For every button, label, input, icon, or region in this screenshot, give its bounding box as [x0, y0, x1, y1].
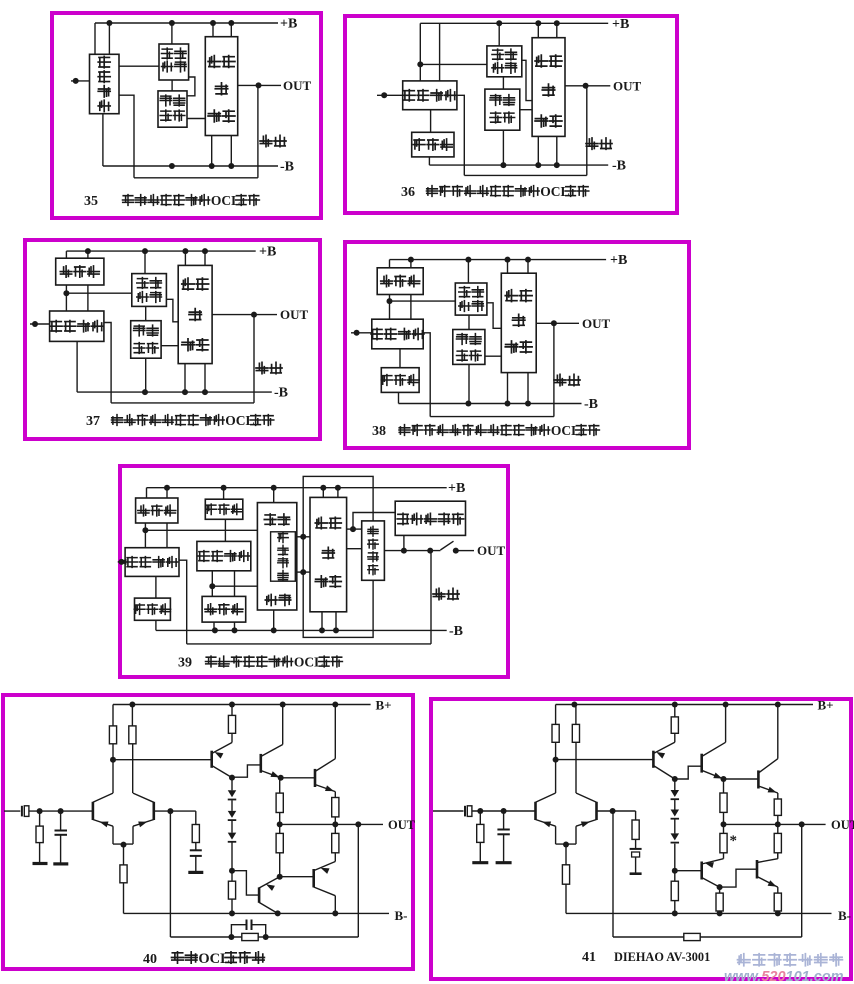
resistor R6 Q3 emitter — [674, 705, 676, 717]
emitter common wire — [556, 843, 576, 845]
block voltage-amp 电压恒压偏置放大 — [257, 503, 296, 610]
node on B+ rail — [332, 702, 338, 708]
wire driver to -B — [537, 136, 539, 165]
node on +B rail — [228, 20, 234, 26]
diode D2 — [674, 800, 676, 810]
block voltage-amp 电压放大 — [487, 46, 522, 77]
svg-text:+B: +B — [448, 481, 465, 496]
svg-text:41: 41 — [582, 950, 596, 965]
resistor R8 — [279, 778, 281, 793]
wire driver to protect lower — [347, 548, 362, 550]
resistor R1 left load — [112, 705, 114, 726]
node — [427, 548, 433, 554]
diode D1 — [231, 778, 233, 791]
feedback tap from diff-input — [457, 95, 464, 175]
wire rail to voltage-amp — [171, 23, 173, 44]
block mirror-source 镜流源 — [389, 260, 391, 268]
svg-text:OUT: OUT — [477, 543, 506, 558]
svg-text:+B: +B — [280, 17, 297, 32]
svg-text:+B: +B — [259, 245, 276, 260]
wire tap to voltage-amp — [420, 63, 487, 65]
input wire — [4, 810, 20, 812]
panel 39 frame — [120, 466, 508, 677]
node tap to voltage-amp — [63, 290, 69, 296]
node — [263, 934, 269, 940]
wire rail to driver — [212, 23, 214, 37]
input wire — [433, 810, 464, 812]
feedback bottom wire — [111, 402, 254, 404]
svg-text:+B: +B — [612, 17, 629, 32]
transistor Q5 output top npn — [314, 769, 317, 787]
label feedback 反馈 — [256, 362, 268, 373]
node feedback tap — [799, 821, 805, 827]
node on +B rail — [554, 20, 560, 26]
ground — [496, 861, 512, 864]
wire mirror2 to -B — [213, 622, 215, 630]
emitter common node — [563, 842, 569, 848]
node on +B rail — [535, 20, 541, 26]
wire driver to -B — [507, 373, 509, 404]
node diff left collector tap — [553, 757, 559, 763]
node on B+ rail — [723, 702, 729, 708]
wire voltage-amp to -B — [273, 610, 275, 630]
feedback tap from diff1 — [179, 560, 187, 644]
feedback vertical from base2 — [612, 811, 614, 937]
wire speaker-protect to OUT — [403, 535, 405, 550]
feedback wire to OUT — [253, 315, 255, 403]
block diff-input 差动输入 — [372, 319, 423, 349]
outer loop box — [303, 476, 373, 637]
svg-text:OUT: OUT — [831, 818, 854, 832]
node on +B rail — [320, 485, 326, 491]
feedback wire to OUT — [257, 85, 259, 177]
svg-text:B-: B- — [838, 908, 851, 923]
wire tap to voltage-amp — [390, 300, 456, 302]
+B rail — [66, 250, 255, 252]
svg-text:38: 38 — [372, 424, 386, 439]
resistor R9 — [279, 824, 281, 833]
svg-text:39: 39 — [178, 656, 192, 671]
input wire — [71, 80, 90, 82]
wire rail to voltage-amp — [498, 23, 500, 46]
wire bias to -B — [468, 364, 470, 403]
wire cc1 to diff2 — [224, 519, 226, 541]
svg-text:DIEHAO AV-3001: DIEHAO AV-3001 — [614, 950, 710, 964]
block mirror-source-1 镜流源 — [146, 488, 148, 498]
node on -B rail — [500, 162, 506, 168]
resistor R4 input — [479, 811, 481, 824]
capacitor C3 polarized — [630, 848, 642, 850]
resistor R12 feedback — [242, 933, 258, 940]
wire R1 down to Q1 collector — [112, 760, 114, 793]
B- rail — [566, 912, 832, 914]
wire tap1 to voltage-amp — [145, 529, 257, 531]
node tap to voltage-amp — [387, 298, 393, 304]
node on B+ rail — [775, 702, 781, 708]
-B rail — [399, 403, 582, 405]
block diff-input 差动输入 — [50, 311, 104, 341]
transistor Q1 diff left — [92, 802, 95, 820]
wire rail to driver — [507, 260, 509, 274]
wire to Q5 base — [281, 777, 315, 779]
feedback wire right — [266, 936, 359, 938]
wire divider to OUT node — [724, 823, 778, 825]
node on +B rail — [85, 248, 91, 254]
wire divider to OUT node — [280, 823, 336, 825]
wire driver to -B — [321, 612, 323, 631]
feedback wire left — [613, 936, 684, 938]
node tap1 — [142, 527, 148, 533]
OUT node — [775, 821, 781, 827]
wire to Q4 base — [675, 766, 701, 779]
input wire — [351, 332, 372, 334]
-B rail — [429, 164, 608, 166]
transistor Q7 output bottom pnp — [312, 869, 315, 887]
wire rail to driver — [184, 251, 186, 265]
wire voltage-amp to bias — [171, 80, 173, 91]
B+ rail — [556, 704, 813, 706]
wire bias to driver — [161, 345, 178, 347]
node on B+ rail — [672, 702, 678, 708]
B- rail — [124, 912, 390, 914]
capacitor C2 input — [60, 811, 62, 830]
node Q2 base — [167, 808, 173, 814]
wire voltage-amp to bias — [502, 77, 504, 89]
block mirror-source-2 镜流源 — [202, 596, 246, 622]
svg-text:*: * — [730, 833, 738, 849]
svg-text:-B: -B — [584, 397, 598, 412]
node on -B rail — [525, 401, 531, 407]
switch blade — [440, 541, 453, 550]
node Q2 base — [610, 808, 616, 814]
transistor Q6 driver pnp — [700, 862, 703, 880]
ground — [188, 871, 203, 874]
panel 36 frame — [345, 16, 677, 213]
wire diff-input to -B — [76, 341, 78, 392]
svg-text:-B: -B — [280, 160, 294, 175]
node on B- rail — [717, 910, 723, 916]
feedback tap from diff-input — [119, 95, 134, 178]
node — [350, 526, 356, 532]
node Q6 collector — [717, 884, 723, 890]
wire to Q5 base — [724, 778, 759, 780]
wire base2 to R5 — [613, 810, 636, 812]
wire voltage-amp to driver jog — [166, 299, 178, 322]
transistor Q2 diff right — [595, 802, 598, 820]
capacitor C3 — [190, 849, 202, 851]
input wire — [118, 561, 125, 563]
node — [401, 548, 407, 554]
feedback wire to OUT — [430, 551, 432, 644]
-B rail — [103, 165, 278, 167]
node tap to voltage-amp — [417, 61, 423, 67]
node on -B rail — [232, 627, 238, 633]
node on -B rail — [142, 389, 148, 395]
node on +B rail — [202, 248, 208, 254]
OUT wire — [212, 314, 277, 316]
wire to speaker-protect — [353, 513, 395, 530]
resistor R6 Q3 emitter — [231, 705, 233, 716]
OUT wire — [536, 322, 579, 324]
block bias 偏置电路 — [485, 89, 520, 130]
node on -B rail — [228, 163, 234, 169]
svg-text:www.520101.com: www.520101.com — [724, 969, 844, 984]
wire mirror to diff-input — [389, 295, 391, 320]
node on +B rail — [496, 20, 502, 26]
svg-text:OUT: OUT — [388, 818, 416, 832]
wire to Q3 base — [556, 759, 654, 761]
resistor R5 feedback shunt — [195, 811, 197, 824]
OUT node — [251, 312, 257, 318]
emitter common node — [121, 842, 127, 848]
node on +B rail — [221, 485, 227, 491]
input node — [354, 330, 360, 336]
wire base2 to R5 — [170, 810, 195, 812]
OUT wire — [778, 823, 826, 825]
resistor R7 — [674, 871, 676, 882]
node on +B rail — [505, 257, 511, 263]
node on B- rail — [332, 910, 338, 916]
OUT wire — [238, 84, 281, 86]
node input 1 — [477, 808, 483, 814]
capacitor C2 input — [503, 811, 505, 829]
resistor R1 left load — [555, 705, 557, 725]
wire bias to driver — [485, 355, 501, 357]
node on -B rail — [202, 389, 208, 395]
feedback tap from diff-input — [423, 333, 430, 417]
resistor R9 star — [723, 824, 725, 833]
node on +B rail — [169, 20, 175, 26]
wire rail to voltage-amp — [144, 251, 146, 274]
node on -B rail — [465, 401, 471, 407]
resistor R14 feedback — [684, 933, 700, 940]
wire nodeA to Q4 base — [232, 765, 260, 777]
transistor Q1 diff left — [534, 802, 537, 820]
capacitor C1 input coupling — [21, 806, 23, 817]
OUT line — [384, 550, 440, 552]
wire diff2 to mirror2 — [211, 571, 213, 597]
block driver-output 推动与输出 — [310, 497, 347, 611]
node on +B rail — [525, 257, 531, 263]
wire cc2 to -B — [155, 620, 157, 630]
wire nodeB to Q6 base — [232, 871, 259, 895]
wire nodeB to Q6 base — [675, 870, 701, 872]
feedback wire to OUT — [357, 824, 359, 937]
node on +B rail — [465, 257, 471, 263]
wire diff-input to -B — [102, 114, 104, 166]
wire mirror1 to diff1 — [144, 523, 146, 548]
OUT wire — [565, 85, 610, 87]
node on -B rail — [271, 627, 277, 633]
OUT node — [551, 320, 557, 326]
-B rail — [77, 391, 272, 393]
label feedback 反馈 — [260, 135, 272, 146]
wire rail to driver — [537, 23, 539, 37]
block bias 偏置电路 — [453, 330, 485, 365]
block const-current-2 恒流源 — [135, 598, 171, 620]
node input 1 — [37, 808, 43, 814]
block const-current 恒流源 — [381, 368, 419, 393]
OUT wire — [458, 550, 474, 552]
node on +B rail — [335, 485, 341, 491]
wire diff1 to cc2 — [155, 576, 157, 598]
input arrow — [120, 559, 127, 565]
input node — [73, 78, 79, 84]
node Q4 emitter — [278, 775, 284, 781]
resistor R12 — [719, 887, 721, 893]
feedback bottom wire — [134, 177, 258, 179]
wire driver to -B — [184, 364, 186, 393]
block speaker-protect 杨声器保护 — [395, 501, 465, 535]
node on B- rail — [672, 910, 678, 916]
transistor Q7 output bottom npn — [756, 860, 759, 879]
label feedback 反馈 — [554, 374, 566, 385]
wire driver to -B — [211, 136, 213, 167]
wire tap2 to voltage-amp — [212, 585, 257, 587]
node mid divider — [277, 821, 283, 827]
node diode top — [672, 776, 678, 782]
resistor R10 emitter — [777, 793, 779, 799]
-B rail — [156, 629, 447, 631]
ground — [33, 862, 48, 865]
panel 37 frame — [25, 240, 320, 439]
panel 35 frame — [52, 13, 321, 218]
node A diode top — [229, 775, 235, 781]
wire bias to -B — [145, 358, 147, 392]
node on -B rail — [169, 163, 175, 169]
transistor Q6 driver pnp — [258, 887, 261, 902]
node on -B rail — [505, 401, 511, 407]
svg-text:37: 37 — [86, 414, 100, 429]
node on B+ rail — [571, 702, 577, 708]
ground — [630, 872, 642, 875]
block const-current-1 恒流源 — [205, 499, 243, 519]
feedback wire to OUT — [553, 323, 555, 416]
node feedback tap — [355, 821, 361, 827]
svg-text:B+: B+ — [818, 698, 834, 713]
label feedback 反馈 — [433, 588, 445, 599]
wire rail to diff-input — [419, 23, 421, 81]
node — [300, 569, 306, 575]
node on +B rail — [408, 257, 414, 263]
OUT node — [332, 821, 338, 827]
block diff-input-1 差动输入 — [125, 548, 179, 577]
node on -B rail — [212, 627, 218, 633]
block bias 偏置电路 — [131, 321, 161, 359]
svg-text:+B: +B — [610, 253, 627, 268]
block voltage-amp 电压放大 — [159, 44, 189, 80]
ground — [472, 861, 488, 864]
wire diff to voltage-amp — [119, 65, 159, 67]
transistor Q4 predriver npn — [259, 754, 262, 773]
svg-text:-B: -B — [449, 624, 463, 639]
block voltage-amp 电压放大 — [455, 283, 487, 315]
wire bias to driver — [520, 109, 532, 111]
block bias 偏置电路 — [158, 91, 187, 127]
input node — [119, 559, 125, 565]
block mirror-source 镜流源 — [65, 251, 67, 258]
ground — [53, 862, 68, 865]
svg-text:35: 35 — [84, 194, 98, 209]
feedback vertical from base2 — [169, 811, 171, 937]
wire voltage-amp to bias — [145, 306, 147, 320]
node on +B rail — [164, 485, 170, 491]
node on +B rail — [210, 20, 216, 26]
node on +B rail — [142, 248, 148, 254]
resistor R3 tail — [565, 845, 567, 865]
transistor Q2 diff right — [153, 802, 156, 820]
node on B+ rail — [280, 702, 286, 708]
resistor R11 — [334, 824, 336, 833]
input wire — [377, 94, 403, 96]
resistor R7 — [231, 871, 233, 882]
wire const-current to -B — [398, 392, 400, 403]
block voltage-amp 电压放大 — [132, 274, 167, 307]
block const-current 恒流源 — [412, 132, 454, 157]
diode D3 — [231, 820, 233, 832]
capacitor C1 input coupling — [464, 806, 466, 817]
resistor R4 input — [39, 811, 41, 826]
wire diode chain — [674, 844, 676, 871]
node on +B rail — [271, 485, 277, 491]
feedback bottom wire — [187, 643, 431, 645]
node Q4 emitter — [721, 776, 727, 782]
label feedback 反馈 — [586, 138, 598, 149]
node on -B rail — [182, 389, 188, 395]
resistor R2 right load — [575, 705, 577, 725]
block overcurrent-protect 过流保护 — [362, 521, 385, 580]
wire va to driver upper — [297, 536, 310, 538]
resistor R10 emitter — [334, 792, 336, 798]
node on B+ rail — [129, 702, 135, 708]
wire voltage-amp to bias — [468, 315, 470, 329]
resistor R2 right load — [131, 705, 133, 726]
svg-text:OUT: OUT — [582, 316, 611, 331]
node tap2 — [209, 583, 215, 589]
node on -B rail — [333, 627, 339, 633]
capacitor C4 parallel — [231, 925, 246, 937]
wire rail to driver — [322, 488, 324, 498]
node on -B rail — [209, 163, 215, 169]
transistor Q4 predriver npn — [700, 754, 703, 773]
feedback wire right — [700, 936, 802, 938]
node on +B rail — [106, 20, 112, 26]
diode D2 — [231, 800, 233, 811]
wire voltage-amp to driver jog — [487, 303, 501, 329]
node on B- rail — [229, 910, 235, 916]
transistor Q3 VAS pnp — [210, 751, 213, 768]
resistor R13 emitter — [777, 887, 779, 893]
block driver-output 推动与输出 — [205, 37, 237, 136]
svg-text:B-: B- — [395, 908, 408, 923]
wire voltage-amp to driver jog — [522, 60, 532, 100]
wire rail to voltage-amp — [273, 488, 275, 503]
resistor R11 — [777, 824, 779, 833]
wire bias to driver — [187, 118, 205, 120]
wire — [258, 936, 266, 938]
svg-text:36: 36 — [401, 185, 415, 200]
+B rail — [390, 259, 607, 261]
OUT node — [583, 83, 589, 89]
feedback bottom wire — [464, 174, 587, 176]
wire Q6 to Q7 base — [720, 869, 757, 887]
wire const-current to -B — [428, 157, 430, 165]
node B — [672, 868, 678, 874]
wire mirror to diff-input — [65, 285, 67, 311]
node on B+ rail — [229, 702, 235, 708]
transistor Q3 VAS pnp — [652, 751, 655, 768]
wire rail to voltage-amp — [467, 260, 469, 283]
